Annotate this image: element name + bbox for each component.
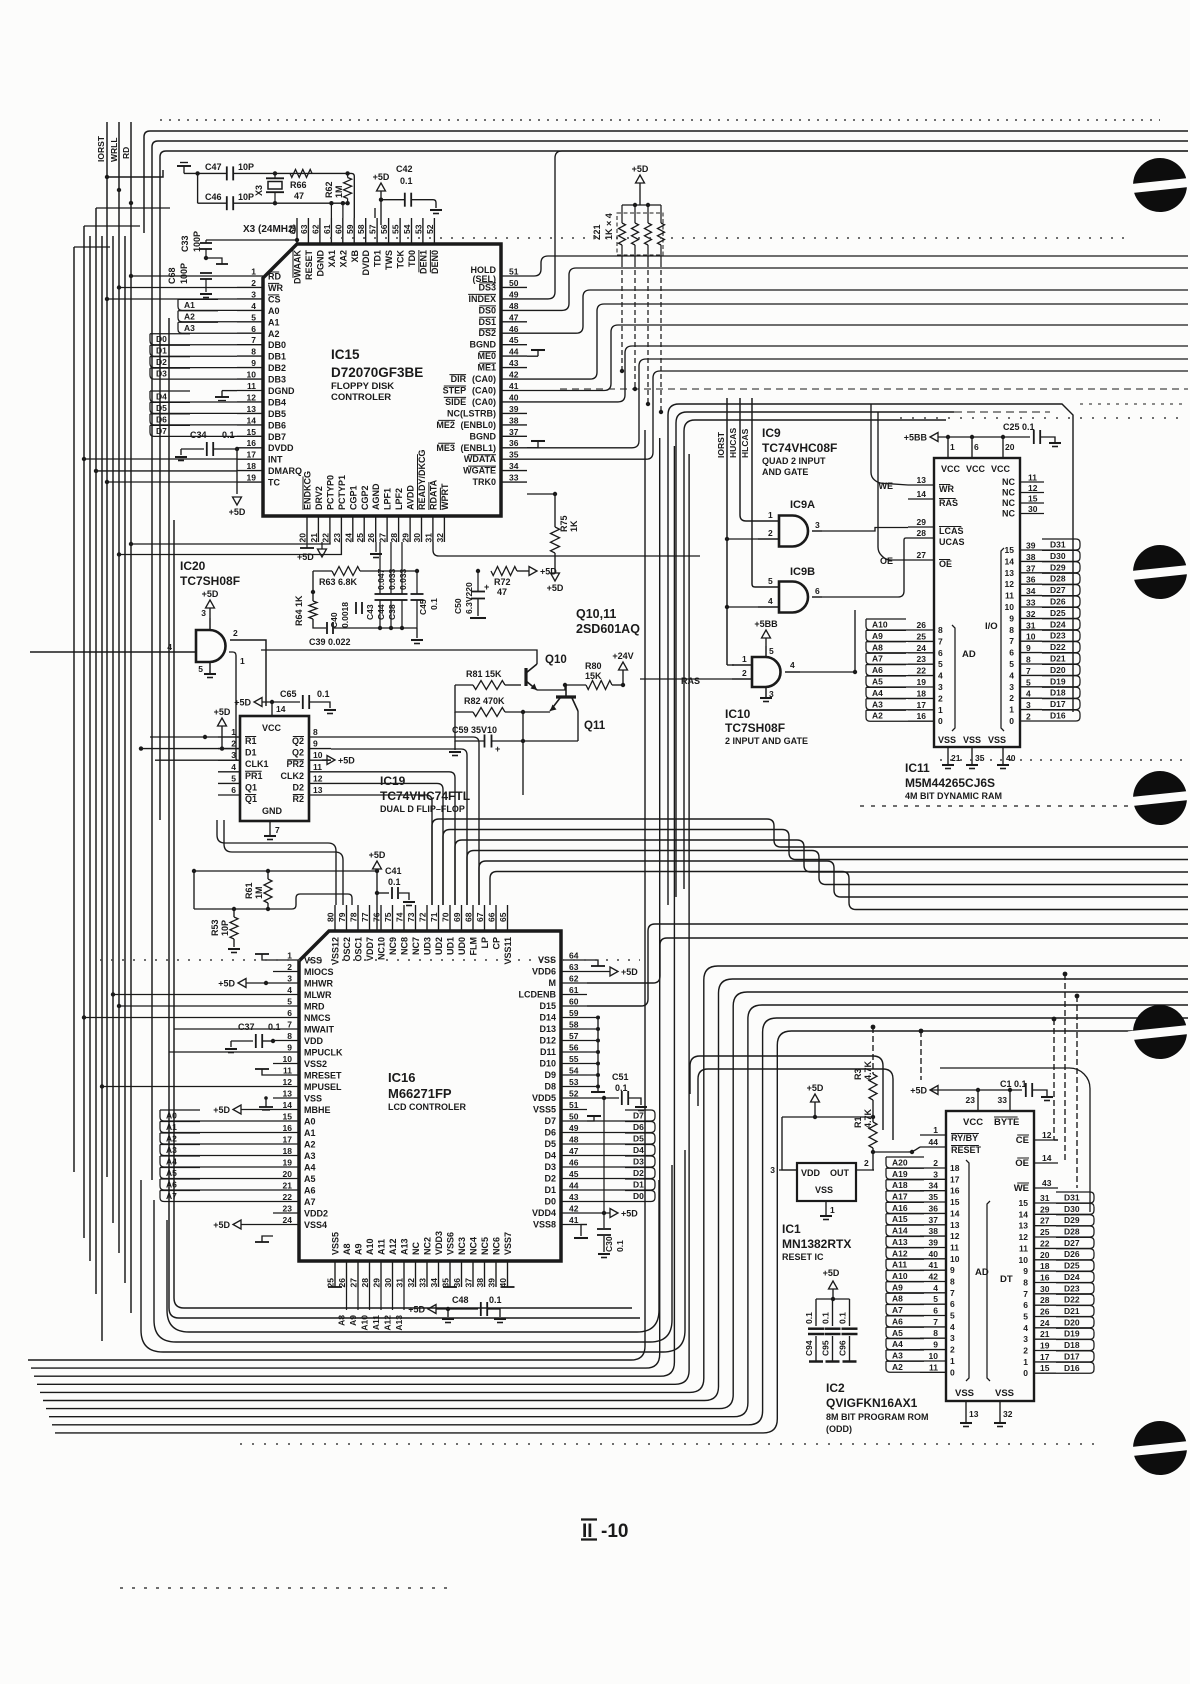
svg-text:Q10,11: Q10,11 <box>576 607 616 621</box>
svg-text:CP: CP <box>492 937 502 950</box>
svg-text:C38: C38 <box>387 604 397 620</box>
svg-text:WDATA: WDATA <box>464 454 497 464</box>
svg-text:WE: WE <box>1014 1183 1029 1194</box>
capacitor C1 <box>930 1079 1053 1101</box>
capacitor C46 <box>198 173 348 210</box>
svg-text:27: 27 <box>1040 1216 1050 1226</box>
svg-text:NC3: NC3 <box>457 1237 467 1255</box>
svg-text:VSS5: VSS5 <box>331 1232 341 1255</box>
svg-text:D17: D17 <box>1050 699 1066 709</box>
svg-text:IC9B: IC9B <box>790 566 815 578</box>
svg-text:A9: A9 <box>348 1315 358 1326</box>
svg-text:UD3: UD3 <box>423 937 433 955</box>
svg-text:C44: C44 <box>376 604 386 620</box>
svg-text:71: 71 <box>429 912 439 922</box>
svg-text:ME0: ME0 <box>477 351 496 361</box>
svg-text:21: 21 <box>951 753 961 763</box>
svg-text:A4: A4 <box>166 1157 177 1167</box>
svg-text:D19: D19 <box>1050 676 1066 686</box>
svg-text:29: 29 <box>1040 1204 1050 1214</box>
svg-text:VSS7: VSS7 <box>503 1232 513 1255</box>
svg-text:X3 (24MHz): X3 (24MHz) <box>243 224 296 235</box>
svg-text:A3: A3 <box>872 699 883 709</box>
svg-text:D23: D23 <box>1064 1283 1080 1293</box>
svg-text:C65: C65 <box>280 689 297 699</box>
svg-text:A6: A6 <box>872 665 883 675</box>
svg-text:26: 26 <box>917 620 927 630</box>
svg-text:8: 8 <box>313 727 318 737</box>
svg-text:4: 4 <box>287 985 292 995</box>
svg-text:44: 44 <box>509 347 519 357</box>
wire loop around IC9/IC11 <box>668 404 1188 905</box>
svg-text:0.1: 0.1 <box>317 689 330 699</box>
svg-text:47: 47 <box>569 1146 579 1156</box>
svg-text:3: 3 <box>1026 700 1031 710</box>
svg-text:3: 3 <box>933 1169 938 1179</box>
svg-text:11: 11 <box>1005 591 1014 601</box>
op-amp IC9A AND gate <box>758 499 822 547</box>
svg-text:+5D: +5D <box>408 1305 425 1315</box>
+5D at IC15 pin22 <box>297 542 327 562</box>
svg-text:30: 30 <box>383 1278 393 1288</box>
svg-text:UCAS: UCAS <box>939 537 965 547</box>
svg-text:D27: D27 <box>1050 585 1066 595</box>
svg-text:IORST: IORST <box>96 135 106 162</box>
svg-text:4: 4 <box>933 1283 938 1293</box>
svg-text:RD: RD <box>268 272 281 282</box>
svg-text:A6: A6 <box>304 1186 316 1196</box>
svg-text:1: 1 <box>933 1125 938 1135</box>
svg-text:NC8: NC8 <box>400 937 410 955</box>
wire IC15 right pin runs <box>527 151 1188 494</box>
svg-text:INDEX: INDEX <box>468 294 496 304</box>
svg-text:(CA0): (CA0) <box>472 386 496 396</box>
svg-text:72: 72 <box>418 912 428 922</box>
svg-text:A10: A10 <box>892 1271 908 1281</box>
svg-text:VSS: VSS <box>963 735 981 745</box>
svg-text:Q2: Q2 <box>292 748 304 758</box>
svg-text:C95: C95 <box>821 1340 831 1356</box>
svg-text:GND: GND <box>262 806 283 816</box>
svg-text:5: 5 <box>251 312 256 322</box>
wire RAS to IC11 pin14 <box>855 499 908 672</box>
svg-text:15: 15 <box>283 1112 293 1122</box>
svg-text:23: 23 <box>332 533 342 543</box>
svg-text:11: 11 <box>283 1066 292 1076</box>
svg-text:C33: C33 <box>180 235 190 252</box>
transistor Q11 <box>550 685 606 732</box>
svg-text:+5D: +5D <box>338 756 355 766</box>
transistor Q10 <box>526 654 567 690</box>
svg-text:66: 66 <box>487 912 497 922</box>
svg-text:NC(LSTRB): NC(LSTRB) <box>447 408 496 418</box>
svg-text:3: 3 <box>770 1165 775 1175</box>
svg-text:A2: A2 <box>892 1362 903 1372</box>
+5D below IC15 left <box>229 449 246 517</box>
svg-text:57: 57 <box>368 224 378 234</box>
gnd at IC15 pin26 <box>370 542 382 558</box>
svg-text:DEN0: DEN0 <box>430 250 440 274</box>
svg-text:M: M <box>549 978 557 988</box>
svg-text:11: 11 <box>247 381 256 391</box>
svg-text:A7: A7 <box>892 1305 903 1315</box>
svg-text:+24V: +24V <box>612 651 633 661</box>
svg-text:A2: A2 <box>166 1134 177 1144</box>
svg-text:61: 61 <box>322 224 332 234</box>
svg-text:A8: A8 <box>342 1243 352 1255</box>
svg-text:VDD2: VDD2 <box>304 1209 328 1219</box>
svg-text:D5: D5 <box>633 1134 644 1144</box>
svg-text:OE: OE <box>880 556 893 566</box>
svg-text:AND GATE: AND GATE <box>762 467 808 477</box>
wire IC19 outputs down <box>217 737 479 905</box>
svg-text:1: 1 <box>251 267 256 277</box>
svg-text:D23: D23 <box>1050 631 1066 641</box>
svg-text:12: 12 <box>1019 1232 1029 1242</box>
svg-text:D2: D2 <box>156 357 167 367</box>
svg-text:42: 42 <box>569 1204 579 1214</box>
svg-text:26: 26 <box>337 1278 347 1288</box>
svg-text:7: 7 <box>275 825 280 835</box>
svg-text:28: 28 <box>389 533 399 543</box>
svg-text:3: 3 <box>815 520 820 530</box>
svg-text:A8: A8 <box>892 1294 903 1304</box>
svg-text:A19: A19 <box>892 1169 908 1179</box>
svg-text:C30: C30 <box>604 1236 614 1252</box>
svg-text:12: 12 <box>1028 483 1038 493</box>
svg-text:A8: A8 <box>872 642 883 652</box>
wire PCTYP1 to bus <box>117 542 342 557</box>
svg-text:TC: TC <box>268 478 280 488</box>
svg-text:IC2: IC2 <box>826 1381 845 1395</box>
svg-text:+5D: +5D <box>632 164 649 174</box>
svg-text:DT: DT <box>1000 1274 1013 1285</box>
svg-text:+5BB: +5BB <box>904 433 928 443</box>
svg-text:IC1: IC1 <box>782 1222 801 1236</box>
svg-text:11: 11 <box>929 1362 938 1372</box>
svg-text:MWAIT: MWAIT <box>304 1025 334 1035</box>
svg-text:8: 8 <box>933 1328 938 1338</box>
crystal X3 <box>254 173 284 203</box>
svg-text:41: 41 <box>929 1260 939 1270</box>
svg-text:2: 2 <box>233 628 238 638</box>
resistor R81 <box>466 669 505 690</box>
svg-text:R53: R53 <box>210 919 220 936</box>
svg-text:11: 11 <box>313 762 322 772</box>
svg-text:45: 45 <box>569 1169 579 1179</box>
svg-text:7: 7 <box>938 636 943 646</box>
svg-text:78: 78 <box>349 912 359 922</box>
svg-text:A1: A1 <box>268 317 280 327</box>
+24V supply <box>612 651 633 687</box>
svg-text:12: 12 <box>1005 579 1015 589</box>
svg-text:63: 63 <box>299 224 309 234</box>
svg-text:54: 54 <box>402 224 412 234</box>
svg-text:RDATA: RDATA <box>428 479 438 510</box>
svg-text:D10: D10 <box>539 1059 556 1069</box>
svg-text:2: 2 <box>1009 693 1014 703</box>
wire cascade to right edge <box>432 819 1188 1006</box>
svg-text:36: 36 <box>1026 575 1036 585</box>
svg-text:RESET: RESET <box>304 250 314 281</box>
svg-text:10P: 10P <box>238 192 254 202</box>
svg-text:+5D: +5D <box>214 707 231 717</box>
svg-text:D2: D2 <box>544 1174 556 1184</box>
wire PCTYP0 to bus <box>129 542 330 546</box>
op-amp IC20 AND gate <box>30 559 266 760</box>
svg-text:3: 3 <box>938 682 943 692</box>
svg-text:DB0: DB0 <box>268 340 286 350</box>
svg-text:13: 13 <box>950 1220 960 1230</box>
svg-text:R66: R66 <box>290 180 307 190</box>
svg-text:3: 3 <box>950 1333 955 1343</box>
svg-text:21: 21 <box>309 533 319 543</box>
svg-text:C37: C37 <box>238 1022 255 1032</box>
svg-text:0.1: 0.1 <box>821 1312 831 1324</box>
svg-text:VDD: VDD <box>801 1168 821 1178</box>
svg-text:OE: OE <box>939 559 952 569</box>
svg-text:D1: D1 <box>633 1180 644 1190</box>
svg-text:25: 25 <box>326 1278 336 1288</box>
svg-text:DEN1: DEN1 <box>418 250 428 274</box>
svg-text:9: 9 <box>1009 613 1014 623</box>
svg-text:39: 39 <box>487 1278 497 1288</box>
wire RD junction <box>129 201 133 205</box>
svg-text:23: 23 <box>283 1204 293 1214</box>
svg-text:8: 8 <box>938 625 943 635</box>
svg-text:CGP2: CGP2 <box>360 485 370 510</box>
svg-text:+5D: +5D <box>621 967 638 977</box>
svg-text:D18: D18 <box>1064 1340 1080 1350</box>
svg-text:DGND: DGND <box>315 250 325 277</box>
svg-text:Q1: Q1 <box>245 794 257 804</box>
svg-text:16: 16 <box>247 438 257 448</box>
svg-text:0.1: 0.1 <box>268 1022 281 1032</box>
svg-text:A2: A2 <box>184 311 195 321</box>
svg-text:40: 40 <box>929 1249 939 1259</box>
svg-text:VSS: VSS <box>304 1094 322 1104</box>
svg-text:D18: D18 <box>1050 688 1066 698</box>
wire RDATA WPRT runs <box>421 542 700 568</box>
svg-text:D30: D30 <box>1064 1204 1080 1214</box>
capacitor C65 <box>262 689 336 716</box>
wire Q10 emitter <box>537 683 623 690</box>
svg-text:47: 47 <box>294 191 304 201</box>
svg-text:8: 8 <box>251 347 256 357</box>
svg-text:D5: D5 <box>544 1139 556 1149</box>
svg-text:58: 58 <box>356 224 366 234</box>
svg-text:74: 74 <box>395 912 405 922</box>
svg-text:DGND: DGND <box>268 386 295 396</box>
svg-text:A2: A2 <box>268 329 280 339</box>
svg-text:A1: A1 <box>304 1128 316 1138</box>
svg-text:C41: C41 <box>385 866 402 876</box>
svg-text:2: 2 <box>950 1345 955 1355</box>
svg-text:D7: D7 <box>633 1111 644 1121</box>
svg-text:4: 4 <box>1009 670 1014 680</box>
svg-text:6: 6 <box>287 1008 292 1018</box>
svg-text:D3: D3 <box>633 1157 644 1167</box>
svg-text:37: 37 <box>1026 563 1036 573</box>
resistor R63 <box>319 567 360 588</box>
svg-text:46: 46 <box>509 324 519 334</box>
svg-text:A13: A13 <box>394 1315 404 1331</box>
svg-text:4: 4 <box>790 660 795 670</box>
capacitor C41 <box>369 850 415 931</box>
svg-text:30: 30 <box>1028 504 1038 514</box>
svg-text:4: 4 <box>768 596 773 606</box>
svg-text:2: 2 <box>287 962 292 972</box>
svg-text:7: 7 <box>1026 666 1031 676</box>
faint scan dashes <box>100 120 1185 1588</box>
wire IC16 right pin connections <box>574 960 655 1238</box>
svg-text:OSC2: OSC2 <box>342 937 352 962</box>
capacitor C47 <box>184 162 350 180</box>
svg-text:D21: D21 <box>1050 654 1066 664</box>
svg-text:BGND: BGND <box>470 340 497 350</box>
svg-text:R1: R1 <box>245 736 257 746</box>
svg-text:AD: AD <box>962 649 976 660</box>
svg-text:D21: D21 <box>1064 1306 1080 1316</box>
svg-text:34: 34 <box>429 1278 439 1288</box>
svg-text:+5D: +5D <box>910 1086 927 1096</box>
svg-text:NC: NC <box>1002 498 1015 508</box>
svg-text:25: 25 <box>1040 1227 1050 1237</box>
svg-text:18: 18 <box>283 1146 293 1156</box>
svg-text:R75: R75 <box>559 515 569 532</box>
svg-text:STEP: STEP <box>443 386 467 396</box>
svg-text:9: 9 <box>1023 1266 1028 1276</box>
svg-text:+5D: +5D <box>218 979 235 989</box>
svg-text:OUT: OUT <box>830 1168 850 1178</box>
svg-text:34: 34 <box>929 1181 939 1191</box>
svg-text:42: 42 <box>929 1272 939 1282</box>
svg-text:TC7SH08F: TC7SH08F <box>725 721 785 735</box>
svg-text:A9: A9 <box>892 1282 903 1292</box>
svg-text:47: 47 <box>497 587 507 597</box>
svg-text:D28: D28 <box>1064 1227 1080 1237</box>
svg-text:IC16: IC16 <box>388 1070 415 1085</box>
X3 24MHz label <box>243 224 296 235</box>
svg-text:11: 11 <box>1019 1243 1028 1253</box>
svg-text:20: 20 <box>1040 1250 1050 1260</box>
wire osc to IC15 pins <box>331 173 354 218</box>
svg-text:D28: D28 <box>1050 574 1066 584</box>
svg-text:OSC1: OSC1 <box>354 937 364 962</box>
wire CE riser <box>1052 1017 1058 1140</box>
svg-text:9: 9 <box>950 1265 955 1275</box>
svg-text:VCC: VCC <box>963 1117 983 1128</box>
svg-text:(CA0): (CA0) <box>472 374 496 384</box>
svg-text:R82 470K: R82 470K <box>464 696 505 706</box>
svg-text:+5D: +5D <box>369 850 386 860</box>
svg-text:ENDKCG: ENDKCG <box>303 471 313 510</box>
svg-text:-10: -10 <box>601 1521 628 1542</box>
svg-text:1M: 1M <box>334 185 344 198</box>
capacitor C42 <box>381 164 442 214</box>
svg-text:0.1: 0.1 <box>838 1312 848 1324</box>
svg-text:VSS4: VSS4 <box>304 1220 327 1230</box>
svg-text:6: 6 <box>1023 1300 1028 1310</box>
+5BB supply at IC10 <box>754 619 778 646</box>
svg-text:0.1: 0.1 <box>222 430 235 440</box>
svg-text:DS2: DS2 <box>478 328 496 338</box>
svg-text:A2: A2 <box>872 711 883 721</box>
svg-text:7: 7 <box>933 1317 938 1327</box>
svg-text:13: 13 <box>969 1409 979 1419</box>
node IORST/HUCAS/HLCAS <box>716 427 750 458</box>
svg-text:5: 5 <box>933 1294 938 1304</box>
svg-text:D24: D24 <box>1064 1272 1080 1282</box>
svg-text:LP: LP <box>480 937 490 949</box>
svg-text:NC2: NC2 <box>423 1237 433 1255</box>
svg-text:68: 68 <box>464 912 474 922</box>
svg-text:0.1: 0.1 <box>804 1312 814 1324</box>
svg-text:C51: C51 <box>612 1072 629 1082</box>
svg-text:55: 55 <box>391 224 401 234</box>
svg-text:VSS8: VSS8 <box>533 1220 556 1230</box>
svg-text:D31: D31 <box>1064 1193 1080 1203</box>
svg-text:4M BIT DYNAMIC RAM: 4M BIT DYNAMIC RAM <box>905 791 1002 801</box>
svg-text:27: 27 <box>378 533 388 543</box>
svg-text:13: 13 <box>917 475 927 485</box>
svg-text:53: 53 <box>569 1077 579 1087</box>
svg-text:VDD4: VDD4 <box>532 1208 556 1218</box>
svg-text:A0: A0 <box>304 1117 316 1127</box>
svg-text:C94: C94 <box>804 1340 814 1356</box>
svg-text:+5D: +5D <box>807 1083 824 1093</box>
svg-text:HLCAS: HLCAS <box>740 428 750 458</box>
svg-text:D22: D22 <box>1064 1295 1080 1305</box>
svg-text:6: 6 <box>974 442 979 452</box>
svg-text:IC20: IC20 <box>180 559 206 573</box>
svg-text:17: 17 <box>283 1135 293 1145</box>
svg-text:24: 24 <box>343 533 353 543</box>
svg-text:RESET IC: RESET IC <box>782 1252 824 1262</box>
svg-text:A11: A11 <box>892 1260 907 1270</box>
svg-text:1: 1 <box>742 654 747 664</box>
svg-text:TWS: TWS <box>384 250 394 270</box>
svg-text:CONTROLER: CONTROLER <box>331 392 391 403</box>
svg-text:4.7K: 4.7K <box>863 1060 873 1080</box>
svg-text:A18: A18 <box>892 1180 908 1190</box>
svg-text:25: 25 <box>355 533 365 543</box>
IC16 M66271FP LCD controller <box>273 905 587 1287</box>
svg-text:12: 12 <box>313 773 323 783</box>
svg-text:D4: D4 <box>633 1145 644 1155</box>
svg-text:D31: D31 <box>1050 540 1066 550</box>
svg-text:1K: 1K <box>569 520 579 532</box>
svg-text:38: 38 <box>475 1278 485 1288</box>
svg-text:10P: 10P <box>238 162 254 172</box>
svg-text:WR: WR <box>939 484 954 494</box>
wire IC19 CLK1 from left <box>155 759 240 761</box>
IC15 D72070GF3BE floppy disk controller <box>237 218 527 542</box>
svg-text:NMCS: NMCS <box>304 1013 331 1023</box>
svg-text:0: 0 <box>950 1367 955 1377</box>
svg-text:9: 9 <box>251 358 256 368</box>
svg-text:5: 5 <box>950 1311 955 1321</box>
svg-text:2: 2 <box>251 278 256 288</box>
svg-text:QUAD 2 INPUT: QUAD 2 INPUT <box>762 456 826 466</box>
svg-text:A11: A11 <box>377 1239 387 1255</box>
svg-text:32: 32 <box>1003 1409 1013 1419</box>
svg-text:C39 0.022: C39 0.022 <box>309 637 351 647</box>
svg-text:A7: A7 <box>304 1197 316 1207</box>
svg-text:12: 12 <box>1042 1130 1052 1140</box>
svg-text:0.047: 0.047 <box>376 568 386 590</box>
svg-text:D5: D5 <box>156 403 167 413</box>
